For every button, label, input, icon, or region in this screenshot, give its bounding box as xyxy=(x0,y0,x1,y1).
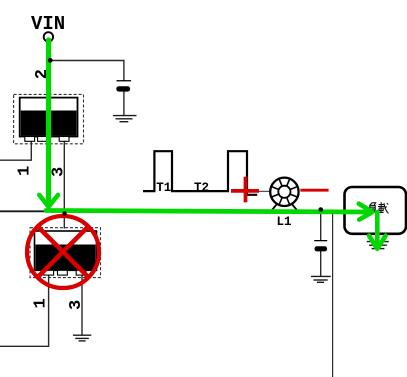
svg-text:VIN: VIN xyxy=(31,13,65,35)
red wire highlight right of L1 xyxy=(300,189,328,192)
svg-text:1: 1 xyxy=(16,166,35,176)
ground G2 xyxy=(73,335,91,341)
wire C2 to ground xyxy=(320,251,322,276)
green flow bus right arrow xyxy=(46,204,372,220)
transformer T2 pin tabs xyxy=(44,270,54,275)
transformer T1 pin tabs xyxy=(25,137,35,142)
ground G3 xyxy=(311,276,331,282)
wire bus to T2 top pin xyxy=(63,211,65,228)
junction dot bus-C2 xyxy=(318,207,323,212)
red X on T2 xyxy=(38,226,89,277)
wire pin1 top transformer xyxy=(0,141,31,160)
junction dot bus-T2 xyxy=(62,211,66,215)
green flow load down arrow xyxy=(369,212,386,249)
capacitor C2 plates xyxy=(314,240,327,241)
svg-text:3: 3 xyxy=(67,300,86,310)
svg-text:T2: T2 xyxy=(194,181,209,195)
load box xyxy=(345,187,407,234)
svg-text:1: 1 xyxy=(32,298,51,308)
svg-text:T1: T1 xyxy=(156,181,171,195)
red prohibition circle on T2 xyxy=(27,216,99,288)
wire bus horizontal xyxy=(0,210,344,212)
wire junction VIN to C1 xyxy=(48,61,124,81)
waveform T1 T2 xyxy=(143,151,257,195)
svg-text:3: 3 xyxy=(50,167,69,177)
transformer T1 body xyxy=(20,98,78,137)
wire C1 to ground xyxy=(123,91,125,116)
inductor L1 circle symbol xyxy=(270,178,298,211)
ground G1 xyxy=(113,116,137,122)
junction dot VIN xyxy=(48,58,53,63)
terminal VIN xyxy=(44,32,53,41)
L1 legs xyxy=(271,204,277,211)
transformer T2 dashed box xyxy=(30,228,101,278)
wire pin3 bottom transformer to ground xyxy=(81,275,83,336)
transformer T2 body xyxy=(35,231,97,270)
ground G4 under load xyxy=(367,242,389,249)
wire long vertical right xyxy=(332,212,334,377)
capacitor C1 plates xyxy=(117,80,132,81)
wire pin3 top transformer to bus xyxy=(63,141,65,211)
red cross marker xyxy=(231,177,259,203)
wire bus to C2 xyxy=(320,211,322,240)
wire waveform to L1 xyxy=(248,190,271,192)
wire pin1 bottom transformer xyxy=(0,275,49,347)
transformer T1 dashed box xyxy=(14,94,84,143)
load label 负载 xyxy=(369,202,388,213)
green flow VIN down arrow xyxy=(39,40,58,207)
svg-text:2: 2 xyxy=(33,69,52,79)
svg-text:L1: L1 xyxy=(277,215,292,229)
